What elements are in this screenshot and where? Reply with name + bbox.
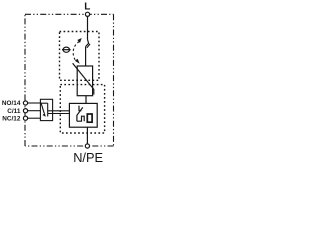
mechanical linkage double line upper: [48, 110, 70, 112]
dashed actuation arc: [73, 42, 79, 60]
device enclosure phantom border: [25, 14, 114, 146]
monitor/indicator box: [69, 103, 97, 127]
mechanical linkage double line lower: [48, 113, 70, 115]
arc arrowhead upper: [77, 38, 81, 43]
wire varistor to monitor box: [85, 96, 87, 104]
wire NC terminal: [28, 117, 41, 119]
svg-text:NC/12: NC/12: [2, 115, 21, 122]
svg-text:NO/14: NO/14: [2, 100, 21, 107]
terminal NC/12: [23, 116, 27, 120]
svg-text:N/PE: N/PE: [73, 150, 103, 165]
NO stub rail: [40, 102, 47, 104]
blade arrowhead: [43, 113, 46, 117]
lower dotted box (monitoring section): [60, 85, 104, 133]
terminal C/11: [23, 109, 27, 113]
svg-text:C/11: C/11: [7, 108, 21, 115]
terminal NO/14: [23, 101, 27, 105]
wire C terminal: [28, 110, 41, 112]
wire NO terminal: [28, 102, 41, 104]
terminal N/PE: [85, 144, 89, 148]
terminal L: [85, 12, 89, 16]
wire monitor box to N/PE terminal: [86, 127, 88, 144]
wire disconnector to varistor: [85, 47, 87, 66]
upper dotted box (thermal disconnector section): [60, 32, 100, 81]
indicator glyph axis stroke: [79, 106, 81, 111]
actuator bar: [47, 103, 49, 116]
varistor MOV body: [77, 66, 92, 96]
disconnector switch blade: [86, 40, 89, 47]
wire L terminal to disconnector: [87, 16, 89, 39]
indicator glyph flash stroke: [77, 107, 83, 121]
indicator glyph pulse waveform: [77, 116, 84, 121]
contact blade: [41, 103, 44, 113]
indicator glyph bold cell: [87, 114, 92, 122]
disconnector contact tick: [87, 44, 90, 48]
svg-text:L: L: [84, 1, 90, 12]
changeover contact box: [40, 99, 52, 120]
varistor diagonal strike with tail: [73, 63, 94, 94]
arc arrowhead lower: [75, 59, 80, 64]
thermal theta symbol: [62, 47, 71, 52]
